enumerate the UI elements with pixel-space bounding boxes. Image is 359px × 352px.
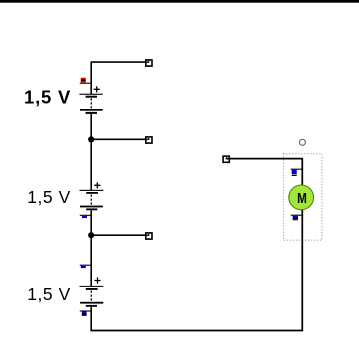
wire: T4 to motor top: [226, 159, 302, 185]
wire: rail B1 to B2: [90, 114, 92, 190]
svg-text:1,5 V: 1,5 V: [27, 187, 71, 207]
marker red (+ indicator) on battery B1: [80, 78, 92, 84]
svg-text:1,5 V: 1,5 V: [27, 284, 71, 304]
battery B2: [80, 190, 104, 210]
marker blue (- indicator) top of battery B3: [80, 265, 91, 268]
wire: bottom bus: [90, 330, 303, 332]
marker blue (- indicator) bottom of battery B3: [80, 311, 91, 316]
battery B3 plus sign: [94, 277, 100, 283]
junction node J1: [88, 136, 94, 142]
wire: motor bottom to bus: [301, 210, 303, 331]
wire: T2 stub tick: [145, 138, 149, 140]
wire: left rail top segment (T-wire to battery B1 +): [90, 61, 92, 94]
motor M1: [289, 185, 314, 210]
wire: rail B2 to B3: [90, 210, 92, 286]
wire: rail B3 to bottom bus: [90, 307, 92, 331]
terminal T1: [146, 60, 152, 66]
battery B1 plus sign: [94, 86, 100, 92]
wire: T1 stub tick: [145, 61, 149, 63]
svg-text:1,5 V: 1,5 V: [24, 86, 71, 107]
top border bar: [0, 0, 359, 3]
battery B3: [80, 286, 104, 307]
terminal T2: [146, 137, 152, 143]
wire: top horizontal from battery rail to terminal T1: [91, 61, 149, 63]
marker blue on motor bottom terminal: [291, 215, 303, 220]
terminal T4 (motor feed): [223, 156, 229, 162]
selection box (dotted) around motor: [283, 154, 322, 240]
battery B2 plus sign: [94, 182, 100, 188]
wire: J1 to terminal T2: [91, 138, 149, 140]
wire: J2 to terminal T3: [91, 234, 149, 236]
rotation handle (grey circle): [299, 139, 305, 145]
terminal T3: [146, 233, 152, 239]
junction node J2: [88, 232, 94, 238]
battery B1: [79, 94, 102, 114]
marker blue on motor top terminal: [291, 169, 303, 176]
svg-text:M: M: [297, 190, 307, 207]
wire: T4 stub tick: [226, 158, 230, 160]
marker blue (- indicator) on battery B2: [80, 215, 91, 218]
wire: T3 stub tick: [145, 234, 149, 236]
